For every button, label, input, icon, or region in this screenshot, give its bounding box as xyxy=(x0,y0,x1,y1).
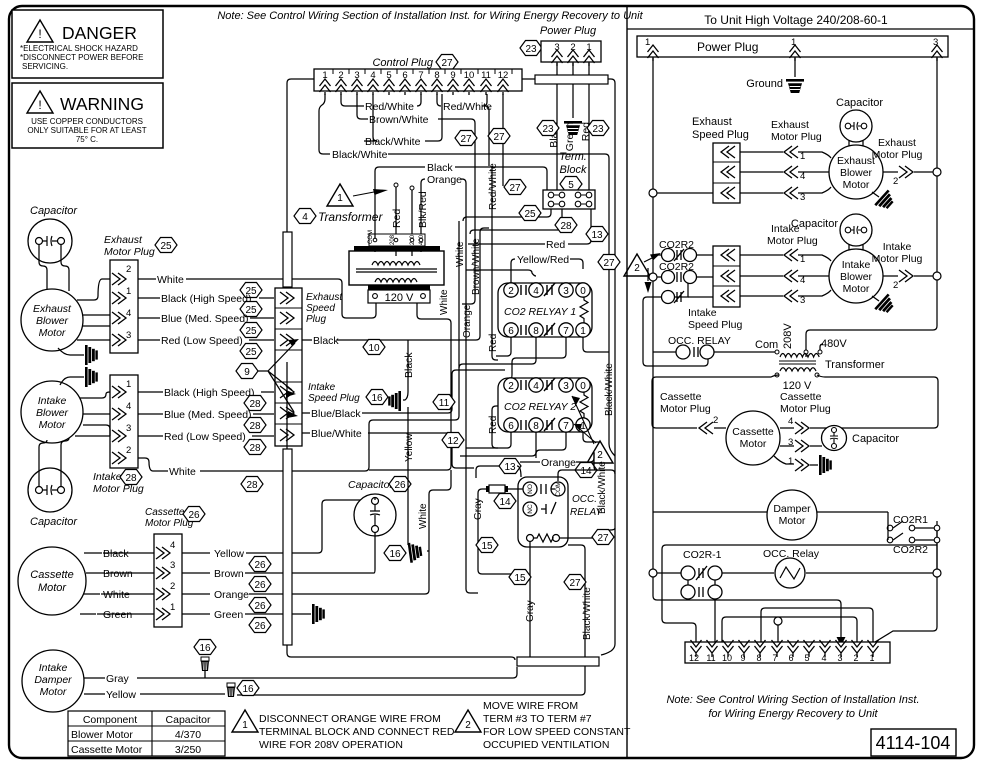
drawing number box xyxy=(871,729,956,756)
svg-text:Blower: Blower xyxy=(840,167,873,179)
svg-text:28: 28 xyxy=(249,421,261,432)
motor M6 intake blower xyxy=(829,249,883,303)
svg-text:7: 7 xyxy=(563,421,569,432)
svg-text:Plug: Plug xyxy=(306,314,326,325)
svg-text:208V: 208V xyxy=(782,323,794,349)
wire: white from plug row 2 xyxy=(138,221,459,471)
wire: jumper t10 t7 t2 xyxy=(722,617,857,642)
svg-text:!: ! xyxy=(38,27,41,41)
node on left rail xyxy=(649,189,657,197)
svg-text:Capacitor: Capacitor xyxy=(852,433,899,445)
bottom cable sleeve xyxy=(517,657,599,666)
svg-text:!: ! xyxy=(38,98,41,112)
svg-text:3: 3 xyxy=(800,295,805,306)
hex 9 fanout xyxy=(236,364,258,379)
svg-text:Motor: Motor xyxy=(843,179,870,191)
svg-text:1: 1 xyxy=(126,379,131,390)
long cable sleeve xyxy=(283,449,292,645)
svg-text:1: 1 xyxy=(645,37,650,48)
wire: yellow from damper xyxy=(84,694,581,695)
svg-text:26: 26 xyxy=(188,510,200,521)
wire: black/white from control plug 4 xyxy=(364,94,377,141)
wire: node to speed plug row 3 xyxy=(653,192,713,194)
CO2R-1 contact K7 xyxy=(681,549,722,580)
svg-text:Motor Plug: Motor Plug xyxy=(104,246,155,258)
wire rows intake: black/blue/red xyxy=(138,391,274,393)
intake speed plug J9 xyxy=(688,246,742,331)
node on right rail xyxy=(933,168,941,176)
svg-text:DISCONNECT ORANGE WIRE FROM: DISCONNECT ORANGE WIRE FROM xyxy=(259,713,441,725)
wire: capacitor C5 to motor M6 xyxy=(849,244,863,251)
note triangle 1 pointer xyxy=(327,184,353,206)
svg-text:16: 16 xyxy=(242,684,254,695)
motor M8 damper xyxy=(767,490,817,540)
svg-text:Orange: Orange xyxy=(214,589,249,601)
svg-text:Exhaust: Exhaust xyxy=(878,137,916,149)
wire: tap leads into winding xyxy=(375,246,421,256)
svg-text:OCC.: OCC. xyxy=(572,494,597,505)
svg-text:27: 27 xyxy=(597,533,609,544)
cassette motor plug J5 xyxy=(145,507,205,628)
wire: occ bottom-left down to gray xyxy=(529,542,531,598)
cable sleeve on wire xyxy=(535,75,608,84)
wedge on cassette row 1 xyxy=(819,455,832,475)
wire: red/white from control plug 2 xyxy=(341,94,364,106)
svg-text:Blue/White: Blue/White xyxy=(311,428,362,440)
svg-text:Speed: Speed xyxy=(306,303,335,314)
OCC relay coil B1 xyxy=(763,548,820,588)
exhaust motor plug right J8 xyxy=(872,137,923,187)
svg-text:28: 28 xyxy=(125,473,137,484)
svg-text:Intake: Intake xyxy=(883,241,912,253)
intake motor plug J10 chevrons xyxy=(767,223,818,306)
svg-text:15: 15 xyxy=(514,573,526,584)
wire: occ com to right xyxy=(558,452,615,481)
wedge plug above motor M2 xyxy=(60,377,84,385)
svg-text:4: 4 xyxy=(302,212,308,223)
co2 relay 1 U1 xyxy=(498,283,592,337)
wire: jumper t8 to t1 xyxy=(761,608,873,642)
svg-text:27: 27 xyxy=(603,258,615,269)
svg-text:ONLY SUITABLE FOR AT LEAST: ONLY SUITABLE FOR AT LEAST xyxy=(27,126,146,135)
svg-text:4: 4 xyxy=(800,275,805,286)
svg-text:Motor Plug: Motor Plug xyxy=(771,131,822,143)
svg-text:Motor: Motor xyxy=(39,327,66,339)
svg-text:75° C.: 75° C. xyxy=(76,135,98,144)
svg-text:Note: See Control Wiring Secti: Note: See Control Wiring Section of Inst… xyxy=(666,694,919,706)
svg-text:2: 2 xyxy=(893,176,898,187)
svg-text:Intake: Intake xyxy=(771,223,800,235)
svg-text:13: 13 xyxy=(504,462,516,473)
contact K3 xyxy=(662,291,685,304)
wire: green from power plug 2 xyxy=(572,62,574,118)
svg-text:28: 28 xyxy=(560,221,572,232)
svg-text:2: 2 xyxy=(126,264,131,275)
svg-text:Cassette: Cassette xyxy=(145,507,185,518)
svg-text:Motor: Motor xyxy=(779,515,806,527)
wire: blk/red tap stub xyxy=(411,190,413,234)
svg-text:4: 4 xyxy=(170,540,175,551)
svg-text:12: 12 xyxy=(447,436,459,447)
svg-text:Gray: Gray xyxy=(106,673,130,685)
120V box xyxy=(368,290,430,303)
svg-text:USE COPPER CONDUCTORS: USE COPPER CONDUCTORS xyxy=(31,117,143,126)
svg-text:28: 28 xyxy=(249,443,261,454)
svg-text:Black (High Speed): Black (High Speed) xyxy=(161,293,251,305)
svg-text:Motor: Motor xyxy=(39,419,66,431)
control plug CP1 xyxy=(314,55,522,96)
wire: right vertical rail xyxy=(936,57,938,168)
svg-text:Blower: Blower xyxy=(36,407,69,419)
svg-text:Motor: Motor xyxy=(40,686,67,698)
svg-text:Brown/White: Brown/White xyxy=(471,238,482,295)
svg-text:13: 13 xyxy=(591,230,603,241)
svg-text:Cassette: Cassette xyxy=(732,426,774,438)
hex 13b xyxy=(499,459,521,474)
wire: capacitor C6 top to box xyxy=(833,427,835,429)
wire: red from power plug 1 xyxy=(588,62,590,190)
svg-text:Black: Black xyxy=(403,352,415,378)
intake motor plug J4 xyxy=(93,375,144,495)
wire: cap C3 top/bottom xyxy=(371,498,375,573)
wire: black/white from control plug 1 trunk xyxy=(319,94,330,154)
wire: black drop to plug connector xyxy=(403,340,408,400)
hex 11 xyxy=(433,395,455,410)
wire: capacitor C4 to motor M5 xyxy=(849,140,863,147)
svg-text:Yellow: Yellow xyxy=(214,548,244,560)
svg-text:Capacitor: Capacitor xyxy=(348,479,393,491)
svg-text:25: 25 xyxy=(245,326,257,337)
svg-text:Blower: Blower xyxy=(36,315,69,327)
svg-text:Black: Black xyxy=(313,335,339,347)
svg-text:3/250: 3/250 xyxy=(175,744,201,756)
node on right rail (intake) xyxy=(933,272,941,280)
svg-text:Capacitor: Capacitor xyxy=(30,205,78,217)
svg-text:Cassette Motor: Cassette Motor xyxy=(71,744,143,756)
svg-text:Intake: Intake xyxy=(308,382,336,393)
svg-text:Green: Green xyxy=(103,609,132,621)
svg-text:Transformer: Transformer xyxy=(318,210,383,224)
svg-text:26: 26 xyxy=(254,601,266,612)
svg-text:Capacitor: Capacitor xyxy=(166,714,211,726)
capacitor C6 xyxy=(822,426,900,451)
svg-text:27: 27 xyxy=(460,134,472,145)
wire: sleeve feed from control plug 12 xyxy=(522,79,615,655)
motor M5 exhaust blower xyxy=(829,145,883,199)
svg-text:OCCUPIED VENTILATION: OCCUPIED VENTILATION xyxy=(483,739,609,751)
svg-text:1: 1 xyxy=(800,151,805,162)
wire rows: white/black/blue/red xyxy=(138,279,376,318)
svg-text:Red (Low Speed): Red (Low Speed) xyxy=(161,335,243,347)
svg-text:26: 26 xyxy=(394,480,406,491)
svg-text:Blk/Red: Blk/Red xyxy=(417,191,429,228)
svg-text:Term.: Term. xyxy=(559,151,587,163)
wire: term block pin 2 drop xyxy=(470,209,562,234)
svg-text:Power Plug: Power Plug xyxy=(697,40,758,54)
svg-text:Control Plug: Control Plug xyxy=(372,57,433,69)
svg-text:Exhaust: Exhaust xyxy=(306,292,343,303)
svg-text:Intake: Intake xyxy=(688,307,717,319)
svg-text:27: 27 xyxy=(509,183,521,194)
svg-text:MOVE WIRE FROM: MOVE WIRE FROM xyxy=(483,700,578,712)
svg-text:27: 27 xyxy=(569,578,581,589)
svg-text:8: 8 xyxy=(533,421,539,432)
CO2R2 contact K2 xyxy=(659,261,697,284)
svg-text:2: 2 xyxy=(126,445,131,456)
svg-text:Motor Plug: Motor Plug xyxy=(660,403,711,415)
svg-text:Note: See Control Wiring Secti: Note: See Control Wiring Section of Inst… xyxy=(217,10,643,22)
wires: motor M2 to plug J4 xyxy=(75,392,110,436)
svg-text:Exhaust: Exhaust xyxy=(104,234,143,246)
svg-text:2: 2 xyxy=(597,450,603,461)
svg-text:2: 2 xyxy=(893,280,898,291)
svg-text:To Unit High Voltage 240/208-6: To Unit High Voltage 240/208-60-1 xyxy=(704,13,888,27)
svg-text:26: 26 xyxy=(254,580,266,591)
svg-text:Intake: Intake xyxy=(93,471,122,483)
svg-text:TERMINAL BLOCK AND CONNECT RED: TERMINAL BLOCK AND CONNECT RED xyxy=(259,726,455,738)
hex 16 + plug on gray xyxy=(194,640,216,655)
capacitor C4 xyxy=(836,97,883,142)
svg-text:COM: COM xyxy=(368,230,374,244)
wires: occ contact left to rail, right to transformer com xyxy=(653,351,775,353)
note triangle 2 (right panel) xyxy=(624,253,661,293)
transformer T2 xyxy=(755,323,885,392)
wire: gray from damper xyxy=(84,667,517,678)
wedge below motor M5 xyxy=(874,190,897,213)
wire: right rail down to t1 xyxy=(875,577,937,642)
svg-text:SERVICING.: SERVICING. xyxy=(22,62,68,71)
svg-text:Red: Red xyxy=(546,239,565,251)
svg-text:CO2 RELYAY 2: CO2 RELYAY 2 xyxy=(504,401,576,413)
svg-text:Red/White: Red/White xyxy=(488,163,499,210)
svg-text:Motor: Motor xyxy=(843,283,870,295)
svg-text:Yellow: Yellow xyxy=(404,433,415,462)
term block TB1 xyxy=(543,151,595,209)
wire: motor to right plug to rail xyxy=(883,171,933,173)
svg-text:1: 1 xyxy=(337,193,343,204)
svg-text:4: 4 xyxy=(126,401,131,412)
intake motor plug right J11 xyxy=(872,241,923,291)
svg-text:26: 26 xyxy=(254,621,266,632)
svg-text:4114-104: 4114-104 xyxy=(876,733,951,753)
svg-text:23: 23 xyxy=(592,124,604,135)
wire: relay box loop xyxy=(662,545,937,642)
svg-text:Red: Red xyxy=(391,209,403,228)
svg-text:6: 6 xyxy=(508,421,514,432)
transformer T1 xyxy=(294,184,444,304)
wire: orange vertical bottom elbow xyxy=(466,589,478,593)
svg-text:Motor: Motor xyxy=(38,582,67,594)
svg-text:Motor Plug: Motor Plug xyxy=(780,403,831,415)
svg-text:9: 9 xyxy=(740,653,745,663)
svg-text:3: 3 xyxy=(837,653,842,663)
svg-text:FOR LOW SPEED CONSTANT: FOR LOW SPEED CONSTANT xyxy=(483,726,631,738)
svg-text:Black: Black xyxy=(427,162,453,174)
svg-text:Blue/Black: Blue/Black xyxy=(311,408,361,420)
svg-text:1: 1 xyxy=(170,602,175,613)
svg-text:4/370: 4/370 xyxy=(175,729,201,741)
svg-text:11: 11 xyxy=(706,653,715,663)
wire: damper rail xyxy=(653,511,888,513)
svg-text:Cassette: Cassette xyxy=(30,569,73,581)
hex16 + wedge mid xyxy=(384,546,406,561)
cassette motor plug left J12 xyxy=(660,391,718,434)
svg-text:2: 2 xyxy=(634,263,640,274)
note 2: move wire xyxy=(455,700,631,751)
svg-text:3: 3 xyxy=(563,286,569,297)
svg-text:White: White xyxy=(455,241,466,267)
rail 2 with end nodes xyxy=(649,569,657,577)
wire: motor to right plug to rail xyxy=(883,275,933,277)
svg-text:Yellow: Yellow xyxy=(106,689,136,701)
ground G1 xyxy=(564,121,582,135)
wire: capacitor C2 to motor M2 xyxy=(39,438,69,486)
exhaust motor plug J7 chevrons xyxy=(771,119,822,203)
svg-text:Capacitor: Capacitor xyxy=(30,516,78,528)
power plug P2 (right panel) xyxy=(637,36,948,61)
svg-text:White: White xyxy=(418,503,429,529)
svg-text:*ELECTRICAL SHOCK HAZARD: *ELECTRICAL SHOCK HAZARD xyxy=(20,44,138,53)
svg-text:Exhaust: Exhaust xyxy=(692,116,732,128)
svg-text:6: 6 xyxy=(508,326,514,337)
svg-text:Motor Plug: Motor Plug xyxy=(872,149,923,161)
svg-text:Blower: Blower xyxy=(840,271,873,283)
svg-text:4: 4 xyxy=(533,381,539,392)
wire: term block left pin down to white column xyxy=(463,209,551,221)
wire: blue/black row xyxy=(302,370,505,413)
svg-text:Speed Plug: Speed Plug xyxy=(308,393,360,404)
fuse on wire to NO pin xyxy=(482,485,523,493)
svg-text:WARNING: WARNING xyxy=(60,94,144,114)
wire: black out of speed plug xyxy=(302,228,489,340)
svg-text:120 V: 120 V xyxy=(385,292,414,304)
svg-text:Orange: Orange xyxy=(427,174,462,186)
wire: drop from control plug 12 xyxy=(502,94,504,186)
svg-text:1: 1 xyxy=(800,254,805,265)
capacitor C2 xyxy=(28,468,78,528)
wire: orange label row xyxy=(520,453,594,462)
svg-text:1: 1 xyxy=(869,653,874,663)
svg-text:3: 3 xyxy=(126,423,131,434)
wires: CO2R2 contacts xyxy=(653,254,684,256)
wires: motor M1 to plug J1 xyxy=(77,279,110,340)
svg-text:Blue (Med. Speed): Blue (Med. Speed) xyxy=(164,409,252,421)
svg-text:4: 4 xyxy=(788,416,793,427)
wire: left vertical rail xyxy=(652,57,654,571)
svg-text:2: 2 xyxy=(508,381,514,392)
svg-text:Black: Black xyxy=(103,548,129,560)
wire: ground drop xyxy=(794,57,796,77)
svg-text:Speed Plug: Speed Plug xyxy=(692,129,749,141)
wedge plug below motor M1 xyxy=(58,348,84,355)
svg-text:Yellow/Red: Yellow/Red xyxy=(517,254,569,266)
svg-text:2: 2 xyxy=(508,286,514,297)
wires: cassette plug xyxy=(714,428,846,465)
wire: control plug 1 trunk down left side xyxy=(287,79,314,232)
svg-text:3: 3 xyxy=(126,330,131,341)
CO2R2 contact K6 xyxy=(887,533,940,556)
motor M7 cassette xyxy=(726,411,780,465)
svg-text:Blue (Med. Speed): Blue (Med. Speed) xyxy=(161,313,249,325)
svg-text:27: 27 xyxy=(441,58,453,69)
occ relay contact K4 xyxy=(668,335,731,359)
taps xyxy=(373,238,377,242)
svg-text:Brown: Brown xyxy=(103,568,133,580)
svg-text:for Wiring Energy Recovery to: for Wiring Energy Recovery to Unit xyxy=(708,708,878,720)
svg-text:NC: NC xyxy=(527,504,534,514)
svg-text:Red (Low Speed): Red (Low Speed) xyxy=(164,431,246,443)
wire: white2 vertical from 120V right xyxy=(369,303,451,470)
hex 12 xyxy=(442,433,464,448)
svg-text:Component: Component xyxy=(83,714,137,726)
svg-text:Orange: Orange xyxy=(541,457,576,469)
svg-text:Exhaust: Exhaust xyxy=(771,119,809,131)
exhaust speed plug J6 xyxy=(692,116,749,203)
svg-text:26: 26 xyxy=(254,560,266,571)
note 1: disconnect orange wire xyxy=(232,710,455,751)
wire: right rail joins contacts xyxy=(936,531,938,569)
wire: occ right down black/white xyxy=(568,545,585,695)
core caps xyxy=(354,246,440,251)
svg-text:9: 9 xyxy=(244,367,250,378)
svg-text:Black/White: Black/White xyxy=(597,461,608,514)
svg-text:3: 3 xyxy=(563,381,569,392)
svg-text:Intake: Intake xyxy=(38,395,67,407)
wire: co2r-1 lower contact to t11 xyxy=(714,599,716,642)
svg-text:1: 1 xyxy=(242,720,248,731)
svg-text:Red: Red xyxy=(488,334,499,352)
svg-text:14: 14 xyxy=(580,466,592,477)
wire: sleeve trunk bottom xyxy=(287,362,515,660)
svg-text:Black/White: Black/White xyxy=(332,149,388,161)
svg-text:28: 28 xyxy=(246,480,258,491)
wires: speed plug to motor plug to motor xyxy=(740,152,831,193)
svg-text:White: White xyxy=(103,589,130,601)
svg-text:NO: NO xyxy=(527,484,534,494)
panel divider xyxy=(626,6,628,758)
capacitor C5 xyxy=(791,214,872,246)
svg-text:White: White xyxy=(439,289,450,315)
exhaust+intake speed plug J2 xyxy=(275,288,360,446)
svg-text:Capacitor: Capacitor xyxy=(836,97,883,109)
svg-text:10: 10 xyxy=(368,343,380,354)
svg-text:Com: Com xyxy=(755,339,778,351)
svg-text:Exhaust: Exhaust xyxy=(837,155,875,167)
svg-text:White: White xyxy=(169,466,196,478)
svg-text:Intake: Intake xyxy=(39,662,68,674)
wire from 13 hex to occ xyxy=(476,466,521,478)
co2 relay 2 U2 xyxy=(498,378,592,432)
svg-text:Green: Green xyxy=(214,609,243,621)
wire: black from power plug 3 xyxy=(556,62,558,190)
svg-text:Cassette: Cassette xyxy=(780,391,822,403)
svg-text:2: 2 xyxy=(170,581,175,592)
relay pin drop wires xyxy=(511,259,515,283)
svg-text:4: 4 xyxy=(800,171,805,182)
svg-text:Brown: Brown xyxy=(214,568,244,580)
power plug P1 (left panel) xyxy=(520,25,601,66)
svg-text:25: 25 xyxy=(160,241,172,252)
svg-text:480V: 480V xyxy=(821,338,847,350)
wire: capacitor C1 to exhaust motor xyxy=(39,245,69,291)
svg-text:Exhaust: Exhaust xyxy=(33,303,72,315)
svg-text:OCC. RELAY: OCC. RELAY xyxy=(668,335,731,347)
svg-text:1: 1 xyxy=(788,456,793,467)
intake damper motor M4 xyxy=(22,650,84,712)
svg-text:7: 7 xyxy=(563,326,569,337)
sleeve on vertical trunk (upper) xyxy=(283,232,292,287)
wire: CO2R1/R2 left join xyxy=(887,512,888,540)
